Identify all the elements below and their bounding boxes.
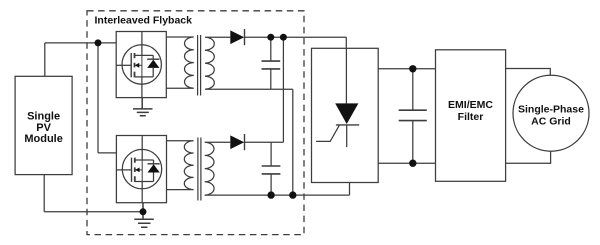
- diode D1 triangle: [230, 30, 244, 44]
- capacitor C1 top stem: [270, 37, 272, 61]
- node DC- dot: [409, 160, 416, 167]
- MOSFET block Q1: [116, 32, 166, 98]
- wire PV- down: [43, 175, 45, 212]
- capacitor C1 plates: [262, 61, 281, 69]
- wire DC- rail: [378, 162, 435, 164]
- wire rail riser to unfolding box: [349, 183, 351, 196]
- ground (upper): [133, 98, 153, 116]
- svg-text:Single-Phase: Single-Phase: [518, 104, 584, 116]
- wire node B down (top rail to lower diode rail): [282, 37, 284, 142]
- wire filter to grid bottom: [506, 151, 551, 163]
- transformer T1 core: [198, 35, 201, 96]
- capacitor C2 top stem: [270, 142, 272, 166]
- wire secondary return down: [292, 89, 294, 195]
- dashed boundary: Interleaved Flyback block: [87, 11, 304, 235]
- ground (lower): [134, 203, 154, 228]
- AC grid circle: [513, 75, 589, 151]
- EMI/EMC filter box: [436, 50, 506, 182]
- capacitor C2 bottom stem: [270, 174, 272, 195]
- node bottom-rail dot 1: [267, 191, 274, 198]
- wire DC+ rail: [378, 68, 435, 70]
- capacitor C1 bottom stem: [270, 69, 272, 89]
- capacitor C3 top stem: [412, 69, 414, 110]
- diode D2 triangle: [230, 135, 244, 149]
- svg-text:Module: Module: [24, 133, 63, 145]
- capacitor C3 bottom stem: [412, 121, 414, 164]
- diode D1 cathode bar: [244, 29, 246, 45]
- MOSFET Q1 symbol: [116, 32, 161, 98]
- diode D2 wire: [244, 141, 283, 143]
- wire top rail drop to unfolding box: [345, 37, 347, 48]
- node top-rail dot 1: [267, 34, 274, 41]
- transformer T2 core: [198, 138, 201, 201]
- wire PV+ up: [44, 43, 46, 76]
- thyristor cathode lead: [346, 125, 348, 147]
- thyristor cathode bar: [336, 124, 359, 126]
- thyristor anode lead: [345, 48, 347, 103]
- transformer T2 primary winding: [167, 141, 194, 190]
- transformer T1 secondary winding: [205, 37, 293, 89]
- svg-text:EMI/EMC: EMI/EMC: [448, 99, 493, 111]
- wire filter to grid top: [506, 69, 551, 76]
- thyristor triangle: [335, 103, 358, 124]
- node DC+ dot: [409, 65, 416, 72]
- capacitor C2 plates: [262, 166, 281, 174]
- svg-text:Filter: Filter: [458, 111, 484, 123]
- wire node A down to lower phase: [97, 43, 99, 153]
- svg-text:AC Grid: AC Grid: [531, 116, 571, 128]
- unfolding bridge box U1: [312, 48, 379, 182]
- diode D1 wire: [244, 36, 346, 38]
- node bottom-rail dot 2: [289, 191, 296, 198]
- node ground dot: [140, 208, 147, 215]
- PV module box: [15, 76, 72, 174]
- node A dot: [95, 39, 102, 46]
- bottom output rail: [205, 194, 350, 196]
- wire to lower MOSFET input: [98, 152, 116, 154]
- transformer T1 primary winding: [166, 37, 194, 88]
- wire PV+ to node A: [45, 42, 116, 44]
- wire PV- to ground node: [44, 211, 143, 213]
- transformer T2 secondary winding: [205, 142, 231, 195]
- thyristor gate: [316, 125, 339, 141]
- svg-text:Single: Single: [27, 111, 60, 123]
- node top-rail dot 2: [280, 34, 287, 41]
- diode D2 cathode bar: [244, 134, 246, 150]
- svg-text:Interleaved Flyback: Interleaved Flyback: [95, 14, 193, 26]
- MOSFET Q2 symbol: [117, 136, 162, 202]
- MOSFET block Q2: [116, 136, 166, 203]
- capacitor C3 plates: [399, 110, 427, 120]
